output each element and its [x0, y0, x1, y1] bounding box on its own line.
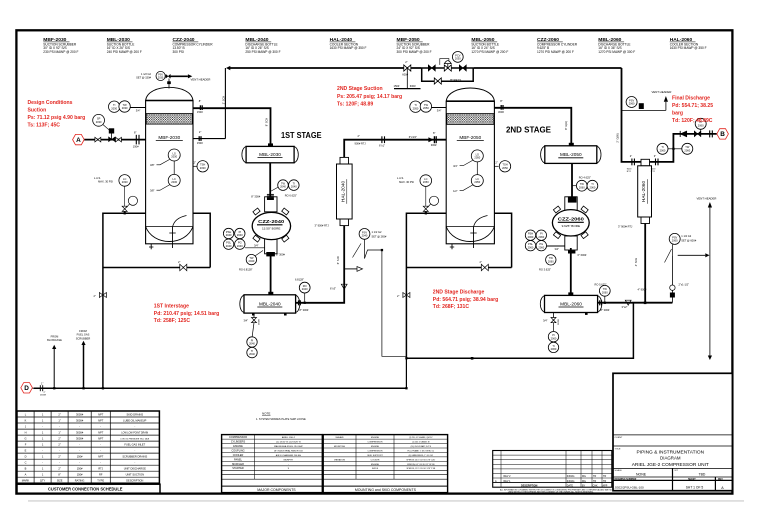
svg-text:ARIEL JGE-2 COMPRESSOR UNIT: ARIEL JGE-2 COMPRESSOR UNIT: [632, 462, 709, 468]
bottom tables: [17, 373, 732, 493]
svg-text:-: -: [59, 462, 60, 465]
label MBF-2030: [43, 37, 78, 54]
svg-text:ENGINE: ENGINE: [233, 445, 243, 448]
svg-text:2" G(W): 2" G(W): [615, 133, 619, 142]
svg-text:1 1/2 G2: 1 1/2 G2: [681, 234, 692, 238]
svg-text:STARTER: STARTER: [232, 467, 244, 470]
svg-text:3/4": 3/4": [543, 318, 548, 322]
svg-text:RO 6.8128": RO 6.8128": [239, 268, 253, 272]
svg-text:2": 2": [58, 436, 60, 440]
flange 8in 300# MBF-2050 outlet: [264, 99, 568, 130]
svg-text:VIBRATION: VIBRATION: [334, 458, 346, 461]
svg-text:MURPHY: MURPHY: [284, 459, 294, 461]
instrument TSH right of MBF-2030: [193, 161, 208, 172]
svg-text:-: -: [134, 450, 135, 453]
from fuel gas scrubber arrow: [76, 329, 91, 345]
red note 2nd stage suction: [337, 86, 402, 107]
wire MBF-2030 8in outlet to MBL-2030: [193, 108, 271, 146]
svg-text:DRAWING NUMBER: DRAWING NUMBER: [615, 478, 637, 481]
svg-text:TITLE: TITLE: [615, 448, 621, 450]
svg-text:3/4": 3/4": [555, 247, 560, 251]
svg-text:3/4": 3/4": [244, 318, 249, 322]
svg-text:FROM: FROM: [51, 334, 59, 338]
svg-text:SKIDS: SKIDS: [372, 468, 379, 470]
instrument TSH right of MBF-2050: [494, 161, 510, 172]
svg-text:VENT HEADER: VENT HEADER: [191, 78, 211, 82]
relief valve PSV-2040: [344, 229, 406, 357]
svg-text:CUSTOMER CONNECTION SCHEDULE: CUSTOMER CONNECTION SCHEDULE: [48, 487, 123, 492]
svg-text:SHT 1 OF 5: SHT 1 OF 5: [686, 486, 704, 490]
svg-text:250 PSI MAWP @ 300 F: 250 PSI MAWP @ 300 F: [245, 50, 280, 54]
svg-text:2040: 2040: [249, 259, 255, 263]
table revision history: [493, 451, 617, 494]
svg-text:2030: 2030: [122, 180, 128, 184]
level gauge bubbles MBF-2050: [453, 150, 483, 193]
svg-text:barg: barg: [672, 110, 683, 116]
instrument cluster CZZ-2060: [525, 230, 587, 272]
red note 1st interstage: [154, 304, 219, 324]
svg-text:1": 1": [41, 381, 43, 385]
svg-text:13.50" BORE: 13.50" BORE: [262, 227, 280, 231]
svg-text:2040: 2040: [280, 185, 286, 189]
svg-text:2": 2": [44, 392, 46, 394]
red note design conditions suction: [28, 100, 86, 128]
svg-text:SET @ 600#: SET @ 600#: [681, 239, 696, 243]
svg-text:-: -: [42, 450, 43, 453]
wire bypass loop: [422, 68, 474, 81]
bottle MBL-2040 discharge bottle: [240, 292, 300, 316]
vent header right: [697, 197, 717, 360]
svg-text:NOTE: NOTE: [262, 412, 270, 416]
svg-text:Pd: 554.71; 38.25: Pd: 554.71; 38.25: [672, 103, 713, 109]
svg-text:APP: APP: [603, 484, 608, 487]
svg-text:18" INDUSTRIAL FAN; ROCK: 18" INDUSTRIAL FAN; ROCK: [274, 449, 304, 452]
svg-text:300 PSI MAWP @ 200 F: 300 PSI MAWP @ 200 F: [397, 50, 432, 54]
svg-text:2040: 2040: [237, 244, 243, 248]
svg-text:BY: BY: [582, 484, 586, 487]
svg-text:600#: 600#: [410, 84, 416, 88]
flange 8in 150# vessel outlet: [197, 99, 203, 114]
bottle MBL-2030 suction bottle: [242, 143, 298, 162]
svg-text:MBF-2050: MBF-2050: [459, 135, 481, 140]
svg-text:SET @ 265#: SET @ 265#: [372, 234, 387, 238]
wire CZZ-2040 to MBL-2040: [270, 254, 272, 295]
svg-text:SPERON; 6.5" OD/ SO 12" SP SB: SPERON; 6.5" OD/ SO 12" SP SB: [407, 464, 435, 466]
svg-text:MAJOR COMPONENTS: MAJOR COMPONENTS: [257, 488, 296, 492]
svg-text:3"x2": 3"x2": [622, 305, 628, 309]
vessel MBF-2030 suction scrubber: [146, 87, 193, 249]
svg-text:300 PSI: 300 PSI: [173, 50, 184, 54]
svg-text:-: -: [134, 462, 135, 465]
svg-text:A: A: [25, 473, 27, 477]
svg-text:NPT: NPT: [98, 455, 104, 459]
svg-text:NPT: NPT: [98, 430, 104, 434]
wire lower headers: [406, 303, 633, 359]
svg-text:3000#: 3000#: [76, 430, 84, 434]
label CZZ-2040: [173, 37, 214, 54]
svg-text:SPERON; 12.5" OD/ SO 17/8" P S: SPERON; 12.5" OD/ SO 17/8" P SB: [406, 468, 436, 470]
svg-text:4" 900#: 4" 900#: [638, 287, 647, 291]
svg-text:WAUKESHA F18GL 310 BHP: WAUKESHA F18GL 310 BHP: [274, 445, 303, 448]
wire recycle drop to HAL-2060 inlet: [622, 68, 641, 162]
svg-text:2040: 2040: [302, 287, 308, 291]
svg-text:2060: 2060: [684, 148, 690, 152]
svg-text:SHEET: SHEET: [688, 479, 696, 481]
svg-text:1630 PSI MAWP @ 350 F: 1630 PSI MAWP @ 350 F: [670, 46, 707, 50]
svg-text:RATING: RATING: [75, 479, 85, 483]
svg-text:6/30/11: 6/30/11: [567, 480, 575, 483]
svg-text:-: -: [79, 450, 80, 453]
svg-text:8" 300#: 8" 300#: [251, 194, 260, 198]
svg-text:HAL-2040: HAL-2040: [341, 181, 346, 203]
wire HAL-2060 outlet riser to B: [650, 134, 717, 162]
svg-text:3/4": 3/4": [437, 109, 442, 113]
svg-text:FROM: FROM: [79, 329, 87, 333]
svg-text:150#: 150#: [197, 141, 203, 145]
svg-text:ARIEL JGE-2: ARIEL JGE-2: [282, 436, 296, 439]
node D drains flag: [21, 383, 33, 393]
svg-text:DIAGRAM: DIAGRAM: [660, 456, 681, 461]
svg-text:SCALE: SCALE: [615, 469, 623, 472]
svg-text:Final Discharge: Final Discharge: [672, 95, 710, 101]
instrument TI/TW pair MBF-2030: [109, 101, 146, 113]
svg-text:E: E: [25, 449, 27, 453]
title block: [613, 373, 732, 490]
drain MBL-2060: [543, 313, 560, 353]
svg-text:MAX. 30 PSI: MAX. 30 PSI: [98, 180, 113, 184]
svg-text:D: D: [25, 455, 27, 459]
svg-text:2060: 2060: [528, 245, 534, 249]
equipment shapes: [146, 87, 652, 315]
wire unit suction A to MBF-2030: [84, 139, 146, 141]
svg-text:K: K: [25, 418, 27, 422]
label MBL-2030: [107, 37, 142, 54]
svg-text:-: -: [100, 425, 101, 428]
svg-text:3" 900# RTJ: 3" 900# RTJ: [315, 224, 330, 228]
svg-text:2ND Stage Suction: 2ND Stage Suction: [337, 86, 383, 92]
svg-text:2030: 2030: [158, 76, 164, 79]
svg-text:3000#: 3000#: [76, 412, 84, 416]
svg-text:D05M: D05M: [40, 395, 46, 397]
svg-text:2040: 2040: [226, 244, 232, 248]
label MBF-2050: [397, 37, 432, 54]
svg-text:DATE: DATE: [567, 484, 574, 487]
svg-text:150#: 150#: [197, 110, 203, 114]
svg-text:MG: MG: [582, 480, 586, 483]
relief valve PSV on final discharge vent: [622, 90, 672, 110]
svg-text:3/8": 3/8": [150, 163, 155, 167]
svg-text:DESCRIPTION: DESCRIPTION: [521, 484, 538, 487]
svg-text:HAL-2060: HAL-2060: [641, 181, 646, 203]
svg-text:2060: 2060: [551, 347, 557, 351]
thin lines, valves, instruments: [32, 52, 716, 397]
compressor cylinder CZZ-2040: [252, 194, 290, 256]
svg-text:3/4": 3/4": [254, 244, 259, 248]
level controller LC / LCV MBF-2030: [94, 175, 138, 215]
red note 2nd stage discharge: [433, 290, 498, 311]
svg-text:3/8": 3/8": [150, 189, 155, 193]
svg-text:FULL FRAME; 1" JIS; STEEL CU: FULL FRAME; 1" JIS; STEEL CU: [408, 449, 435, 452]
svg-text:Design Conditions: Design Conditions: [28, 100, 73, 106]
svg-text:-: -: [59, 450, 60, 453]
svg-text:CYLINDERS: CYLINDERS: [231, 441, 246, 444]
svg-text:SCRUBBER DRAINS: SCRUBBER DRAINS: [122, 455, 147, 459]
svg-text:2ND Stage Discharge: 2ND Stage Discharge: [433, 290, 485, 296]
svg-text:-: -: [100, 450, 101, 453]
svg-text:REV 1: REV 1: [504, 480, 512, 483]
vessel MBF-2050 suction scrubber: [446, 88, 494, 249]
bottle MBL-2060 discharge bottle: [540, 292, 602, 315]
svg-text:COMPRESSOR: COMPRESSOR: [229, 436, 247, 439]
note text: [256, 412, 306, 421]
svg-text:2": 2": [58, 455, 60, 459]
svg-text:8" 300#: 8" 300#: [276, 252, 285, 256]
svg-text:2060: 2060: [629, 102, 635, 106]
svg-text:(8) CARBONSKID; 1" JLS 102: (8) CARBONSKID; 1" JLS 102: [409, 454, 433, 457]
svg-text:MAX. 30 PSI: MAX. 30 PSI: [399, 180, 414, 184]
svg-text:D03M: D03M: [558, 319, 560, 325]
svg-text:MUFFLER: MUFFLER: [232, 463, 244, 466]
riser labels to HAL-2040: [315, 224, 348, 291]
svg-text:TR: TR: [603, 480, 606, 483]
svg-text:2ND STAGE: 2ND STAGE: [506, 125, 551, 135]
svg-text:1 1/2 G2: 1 1/2 G2: [372, 230, 383, 234]
svg-text:SPERON; 26.5" OD/ SO 17/8" J-B: SPERON; 26.5" OD/ SO 17/8" J-BO: [406, 459, 435, 461]
svg-text:D03M: D03M: [259, 319, 261, 325]
svg-text:-: -: [42, 462, 43, 465]
compressor cylinder CZZ-2060: [552, 196, 589, 253]
svg-text:2040: 2040: [362, 234, 368, 238]
instruments TI/TW on discharge riser: [657, 143, 693, 154]
svg-text:-: -: [134, 425, 135, 428]
discharge RO/TW MBL-2060: [595, 133, 647, 312]
svg-text:1630 PSI MAWP @ 350 F: 1630 PSI MAWP @ 350 F: [330, 46, 367, 50]
label MBL-2050: [471, 37, 508, 54]
svg-text:COOLER: COOLER: [371, 459, 380, 461]
svg-text:BYPASS: BYPASS: [450, 78, 461, 82]
svg-text:NONE: NONE: [636, 472, 647, 476]
svg-text:SET @ 150#: SET @ 150#: [136, 76, 151, 80]
svg-text:300#: 300#: [431, 143, 437, 147]
svg-text:2040: 2040: [226, 233, 232, 237]
svg-text:UNIT SUCTION: UNIT SUCTION: [126, 473, 145, 477]
svg-text:1ST STAGE: 1ST STAGE: [281, 130, 322, 140]
svg-text:CZZ-2060: CZZ-2060: [558, 216, 584, 222]
svg-text:L.A.S.: L.A.S.: [397, 176, 404, 180]
svg-text:2030: 2030: [455, 57, 461, 61]
svg-text:2030: 2030: [171, 180, 177, 184]
svg-text:USED WITHOUT THE EXPRESS WRITT: USED WITHOUT THE EXPRESS WRITTEN CONSENT…: [508, 491, 594, 494]
svg-text:NPT: NPT: [98, 436, 104, 440]
svg-text:900#: 900#: [627, 168, 633, 170]
drain loop valves stage 2: [397, 260, 488, 298]
svg-text:C: C: [25, 461, 27, 465]
svg-text:D: D: [24, 385, 29, 392]
svg-text:150#: 150#: [133, 145, 139, 149]
relief valve PSV-2060: [665, 233, 710, 302]
node B unit discharge flag: [717, 129, 729, 139]
svg-text:NPT: NPT: [98, 412, 104, 416]
svg-text:A: A: [76, 137, 81, 144]
wire HAL-2060 bottom leg: [644, 224, 646, 303]
svg-text:FUEL GAS INLET: FUEL GAS INLET: [124, 443, 145, 447]
svg-text:1/2": 1/2": [453, 189, 458, 193]
svg-text:2060: 2060: [672, 239, 678, 243]
svg-text:CHK: CHK: [593, 484, 598, 487]
svg-text:2060: 2060: [548, 259, 554, 263]
svg-text:900# RTJ: 900# RTJ: [355, 142, 367, 146]
wire MBL-2040 to HAL-2040: [296, 226, 344, 303]
svg-text:3" 900# RTJ: 3" 900# RTJ: [618, 224, 633, 228]
wire recycle main through PCV: [422, 67, 474, 69]
svg-text:8": 8": [58, 473, 60, 477]
svg-text:VENT HEADER: VENT HEADER: [652, 90, 672, 94]
svg-text:(1) 265; 5 V-BANK; M: (1) 265; 5 V-BANK; M: [412, 441, 430, 444]
svg-text:TR: TR: [593, 480, 596, 483]
valve V-A2 on suction line: [116, 137, 122, 142]
svg-text:150#: 150#: [77, 467, 83, 471]
valve V-A1 on suction line: [95, 137, 101, 142]
svg-text:150#: 150#: [77, 455, 83, 459]
valve SDV with actuator on suction line: [103, 125, 115, 142]
svg-text:MG: MG: [582, 475, 586, 478]
svg-text:2050: 2050: [474, 156, 480, 160]
red annotations + flags: [21, 86, 729, 393]
label MBL-2060: [598, 37, 635, 54]
red note final discharge: [672, 95, 713, 124]
svg-text:MBL-2040: MBL-2040: [259, 301, 281, 306]
svg-text:Suction: Suction: [28, 108, 47, 114]
relief valve PSV-2030 on vessel top: [136, 71, 210, 88]
svg-text:3": 3": [654, 154, 656, 158]
svg-text:TBD: TBD: [699, 472, 706, 476]
svg-text:-: -: [79, 462, 80, 465]
svg-text:MOUNTING: MOUNTING: [334, 446, 346, 448]
level gauge bubbles MBF-2030: [150, 149, 180, 193]
svg-text:UNIT DISCHARGE: UNIT DISCHARGE: [124, 467, 146, 471]
svg-text:2": 2": [397, 294, 399, 298]
svg-text:FUEL GAS: FUEL GAS: [77, 333, 90, 337]
svg-text:Ps: 71.12 psig 4.90 barg: Ps: 71.12 psig 4.90 barg: [28, 115, 86, 121]
svg-text:3/4": 3/4": [453, 164, 458, 168]
svg-text:2": 2": [58, 412, 60, 416]
svg-text:2" SCH: 2" SCH: [221, 96, 225, 105]
svg-text:Td: 120F; 48.89C: Td: 120F; 48.89C: [672, 118, 713, 124]
final discharge line to B: [680, 118, 712, 137]
svg-text:2030: 2030: [200, 166, 206, 170]
svg-text:2060: 2060: [579, 185, 585, 189]
svg-text:2060: 2060: [590, 185, 596, 189]
svg-text:Ps: 205.47 psig; 14.17 barg: Ps: 205.47 psig; 14.17 barg: [337, 94, 402, 100]
svg-text:SKID SUPPORT: SKID SUPPORT: [367, 455, 383, 457]
svg-text:8" 300#: 8" 300#: [601, 308, 610, 312]
control valve PCV-2030 with bypass: [428, 52, 466, 85]
wire drain loop MBF-2030: [103, 213, 210, 388]
svg-text:8" SCH: 8" SCH: [264, 118, 268, 127]
flange pair suction 8in 150#: [133, 130, 139, 148]
svg-text:2050: 2050: [423, 106, 429, 110]
svg-text:2": 2": [630, 154, 632, 158]
svg-text:8": 8": [199, 99, 201, 103]
svg-text:2060: 2060: [528, 235, 534, 239]
label HAL-2060: [670, 37, 707, 50]
svg-text:6" S.W.: 6" S.W.: [336, 255, 340, 264]
svg-text:2060: 2060: [602, 290, 608, 294]
svg-text:VENT HEADER: VENT HEADER: [697, 197, 717, 201]
svg-text:1270 PSI MAWP @ 200 F: 1270 PSI MAWP @ 200 F: [537, 50, 574, 54]
svg-text:8" 300#: 8" 300#: [300, 308, 309, 312]
svg-text:Pd: 564.71 psig; 38.94 barg: Pd: 564.71 psig; 38.94 barg: [433, 297, 498, 303]
svg-text:2": 2": [480, 260, 482, 264]
svg-text:8": 8": [433, 131, 435, 135]
svg-text:REV: REV: [718, 479, 723, 481]
label CZZ-2060: [537, 37, 578, 54]
svg-text:4" SCH: 4" SCH: [634, 258, 638, 267]
svg-text:B: B: [720, 131, 725, 138]
svg-text:8": 8": [134, 130, 136, 134]
svg-text:MOUNTING and SKID COMPONENTS: MOUNTING and SKID COMPONENTS: [355, 488, 417, 492]
svg-text:2": 2": [178, 260, 180, 264]
svg-text:Ts: 113F; 45C: Ts: 113F; 45C: [28, 122, 61, 128]
svg-text:ENGINE: ENGINE: [371, 437, 380, 439]
discharge instruments MBL-2040: [295, 278, 310, 313]
svg-text:MBL-2060: MBL-2060: [560, 301, 582, 306]
svg-text:COMPRESSOR: COMPRESSOR: [367, 442, 383, 444]
label MBL-2040: [245, 37, 280, 54]
svg-text:2040: 2040: [249, 342, 255, 346]
instrument SP bubble near suction valve: [93, 114, 105, 126]
svg-text:-: -: [59, 425, 60, 428]
svg-text:2030: 2030: [171, 155, 177, 159]
svg-text:MBL-2050: MBL-2050: [560, 152, 582, 157]
svg-text:-: -: [100, 462, 101, 465]
svg-text:TYPE: TYPE: [97, 479, 104, 483]
HAL-2040 inlet line fittings: [355, 131, 438, 148]
svg-text:3000#: 3000#: [76, 418, 84, 422]
instruments below MBL-2050: [572, 176, 598, 191]
svg-text:2060: 2060: [698, 123, 704, 127]
svg-text:(1) 13.50" B; (1) 9.625" B: (1) 13.50" B; (1) 9.625" B: [276, 442, 301, 444]
svg-text:CLIENT: CLIENT: [615, 437, 623, 439]
svg-text:Td: 258F; 125C: Td: 258F; 125C: [154, 318, 191, 324]
svg-text:SCRUBBER: SCRUBBER: [76, 336, 91, 340]
svg-text:6" 600#: 6" 600#: [578, 253, 587, 257]
svg-text:2050: 2050: [502, 166, 508, 170]
svg-text:6"x3/4": 6"x3/4": [409, 135, 417, 139]
table customer connection schedule: [17, 411, 160, 493]
from blowcase arrow: [47, 334, 62, 349]
svg-text:-: -: [100, 444, 101, 447]
level controller LC / LCV MBF-2050: [397, 175, 439, 215]
svg-text:COOLER: COOLER: [233, 454, 244, 457]
junction dots on bottom header: [53, 357, 473, 389]
svg-text:ENGINE: ENGINE: [371, 464, 380, 466]
svg-text:9.625" BORE: 9.625" BORE: [562, 224, 580, 228]
svg-text:1 1/2 G2: 1 1/2 G2: [141, 72, 152, 76]
svg-text:230 PSI MAWP @ 200 F: 230 PSI MAWP @ 200 F: [43, 50, 78, 54]
svg-text:RO 6.625": RO 6.625": [285, 194, 297, 198]
svg-text:3/4": 3/4": [136, 109, 141, 113]
svg-text:H: H: [25, 430, 27, 434]
svg-text:2": 2": [58, 467, 60, 471]
svg-text:2040: 2040: [291, 185, 297, 189]
wire from fuel gas scrubber: [83, 345, 85, 388]
svg-text:1": 1": [58, 418, 60, 422]
svg-text:240 PSI MAWP @ 200 F: 240 PSI MAWP @ 200 F: [107, 50, 142, 54]
wire bottom drain header to D: [34, 387, 407, 389]
svg-text:CZZ-2040: CZZ-2040: [258, 219, 284, 225]
svg-text:2040: 2040: [237, 233, 243, 237]
